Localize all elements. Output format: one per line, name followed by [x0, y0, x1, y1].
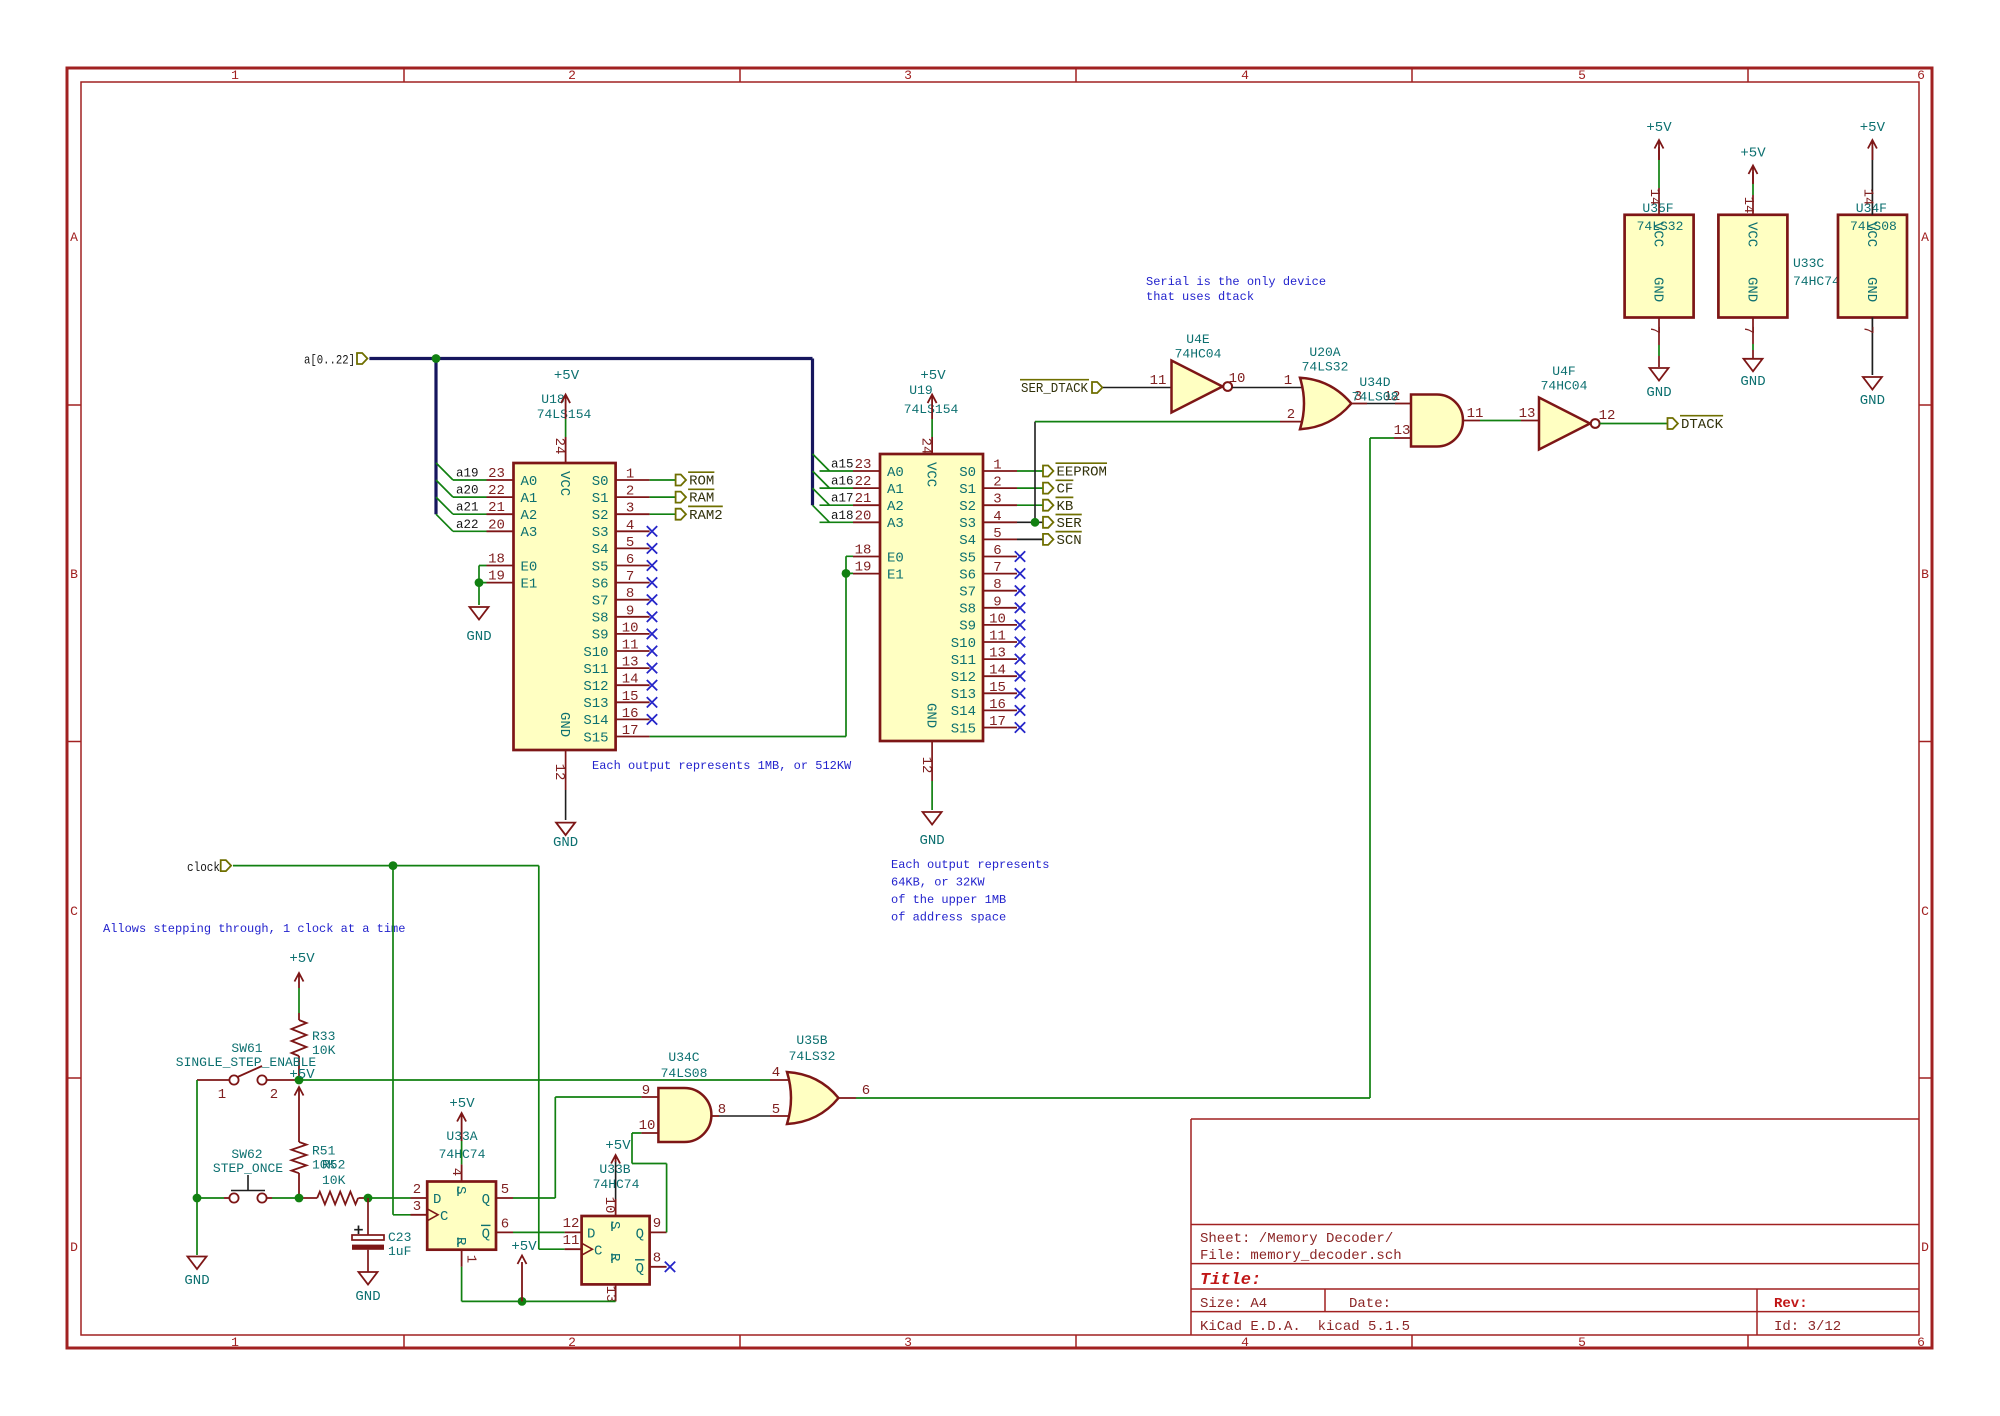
svg-text:R: R — [606, 1253, 622, 1262]
svg-text:a[0..22]: a[0..22] — [304, 354, 355, 368]
svg-text:S5: S5 — [959, 550, 976, 566]
svg-text:2: 2 — [568, 1335, 576, 1350]
wire U19 output to CF — [1017, 487, 1043, 489]
svg-text:RAM: RAM — [689, 491, 714, 507]
svg-text:SCN: SCN — [1057, 533, 1082, 549]
svg-text:3: 3 — [626, 501, 634, 517]
wire U33B Q to U34C input 10 — [632, 1133, 667, 1232]
svg-text:+5V: +5V — [920, 368, 946, 384]
svg-text:15: 15 — [622, 689, 639, 705]
hierarchical label RAM — [676, 489, 715, 506]
svg-text:SER_DTACK: SER_DTACK — [1021, 381, 1089, 397]
switch SW62 STEP_ONCE — [197, 1147, 299, 1203]
svg-text:clock: clock — [187, 861, 220, 875]
svg-text:D: D — [70, 1240, 78, 1255]
svg-text:ROM: ROM — [689, 474, 714, 490]
svg-text:8: 8 — [718, 1102, 726, 1118]
svg-text:1uF: 1uF — [388, 1244, 411, 1259]
svg-text:8: 8 — [653, 1251, 661, 1267]
svg-text:A2: A2 — [521, 508, 538, 524]
svg-text:2: 2 — [413, 1182, 421, 1198]
svg-text:20: 20 — [855, 508, 872, 524]
svg-text:S1: S1 — [959, 482, 976, 498]
svg-text:5: 5 — [1578, 68, 1586, 83]
svg-text:GND: GND — [184, 1273, 209, 1289]
svg-text:SW61: SW61 — [231, 1041, 262, 1056]
ground GND at C23 — [355, 1272, 380, 1305]
svg-text:KB: KB — [1057, 499, 1074, 515]
svg-text:6: 6 — [501, 1217, 509, 1233]
wire U18 S1 to RAM — [650, 496, 676, 498]
svg-text:8: 8 — [993, 577, 1001, 593]
wire U34D output 11 to U4F input 13 — [1463, 406, 1539, 422]
svg-text:74HC04: 74HC04 — [1541, 379, 1588, 394]
svg-text:24: 24 — [918, 438, 934, 455]
svg-text:14: 14 — [1646, 189, 1662, 206]
svg-text:DTACK: DTACK — [1681, 417, 1724, 433]
svg-text:74LS08: 74LS08 — [1352, 390, 1399, 405]
svg-text:13: 13 — [602, 1286, 618, 1303]
hierarchical label EEPROM — [1043, 463, 1107, 480]
svg-text:C: C — [1921, 904, 1929, 919]
svg-text:S12: S12 — [951, 670, 976, 686]
svg-text:74HC04: 74HC04 — [1175, 347, 1222, 362]
svg-text:5: 5 — [1578, 1335, 1586, 1350]
wire SER net to U20A input 2 with junction — [1031, 422, 1302, 527]
svg-text:S14: S14 — [583, 713, 608, 729]
svg-text:11: 11 — [1467, 406, 1484, 422]
svg-text:RAM2: RAM2 — [689, 508, 723, 524]
svg-text:+5V: +5V — [511, 1239, 537, 1255]
svg-text:11: 11 — [989, 629, 1006, 645]
svg-text:B: B — [70, 567, 78, 582]
power +5V at reset line — [511, 1239, 537, 1301]
wire U19 output to KB — [1017, 504, 1043, 506]
svg-text:U35B: U35B — [796, 1033, 827, 1048]
svg-text:13: 13 — [622, 655, 639, 671]
wire U18 S2 to RAM2 — [650, 513, 676, 515]
svg-text:S: S — [606, 1221, 622, 1229]
svg-text:6: 6 — [1917, 1335, 1925, 1350]
note serial dtack — [1146, 275, 1326, 304]
note each output 64KB — [891, 858, 1049, 925]
svg-text:74HC74: 74HC74 — [1793, 274, 1840, 289]
svg-text:11: 11 — [1150, 373, 1167, 389]
svg-text:1: 1 — [218, 1087, 226, 1103]
svg-text:STEP_ONCE: STEP_ONCE — [213, 1161, 283, 1176]
svg-text:Q: Q — [636, 1226, 644, 1242]
svg-text:10: 10 — [622, 620, 639, 636]
svg-text:Sheet: /Memory Decoder/: Sheet: /Memory Decoder/ — [1200, 1231, 1393, 1247]
svg-text:10: 10 — [601, 1197, 617, 1214]
svg-text:Date:: Date: — [1349, 1296, 1391, 1312]
svg-text:Each output represents 1MB, or: Each output represents 1MB, or 512KW — [592, 759, 852, 773]
svg-text:GND: GND — [1650, 277, 1666, 302]
svg-text:18: 18 — [855, 543, 872, 559]
bus a[0..22] — [369, 359, 812, 515]
svg-text:Q: Q — [482, 1192, 490, 1208]
svg-text:VCC: VCC — [1650, 222, 1666, 247]
svg-text:A0: A0 — [521, 474, 538, 490]
wire U18 S0 to ROM — [650, 479, 676, 481]
no-connect marks U19 S5-S15 — [1015, 551, 1025, 732]
IC U19 74LS154 decoder — [820, 383, 1018, 773]
power +5V at U35F pin 14 — [1646, 120, 1672, 160]
svg-text:2: 2 — [568, 68, 576, 83]
svg-text:CF: CF — [1057, 482, 1074, 498]
svg-text:GND: GND — [919, 833, 944, 849]
svg-text:a19: a19 — [456, 467, 479, 481]
svg-text:2: 2 — [1287, 407, 1295, 423]
svg-text:Serial is the only device: Serial is the only device — [1146, 275, 1326, 289]
svg-text:23: 23 — [488, 466, 505, 482]
svg-text:S1: S1 — [592, 491, 609, 507]
svg-text:GND: GND — [355, 1289, 380, 1305]
svg-text:1: 1 — [993, 458, 1001, 474]
svg-text:S4: S4 — [592, 542, 609, 558]
no-connect marks U18 S3-S14 — [647, 526, 657, 725]
power +5V at U33A pin 4 — [449, 1096, 475, 1164]
svg-text:1: 1 — [1284, 373, 1292, 389]
flip-flop U33B 74HC74 — [563, 1162, 667, 1302]
wire U4E output to U20A input 1 — [1232, 373, 1302, 389]
svg-text:VCC: VCC — [556, 471, 572, 496]
svg-text:C: C — [70, 904, 78, 919]
wire U18 S15 to U19 enables — [650, 556, 853, 736]
svg-text:+5V: +5V — [1740, 146, 1766, 162]
svg-text:S6: S6 — [592, 576, 609, 592]
svg-text:S9: S9 — [592, 628, 609, 644]
junction R51/SW62 — [295, 1194, 304, 1203]
svg-text:U4F: U4F — [1552, 364, 1575, 379]
svg-text:D: D — [1921, 1240, 1929, 1255]
svg-text:S0: S0 — [592, 474, 609, 490]
svg-text:GND: GND — [1863, 277, 1879, 302]
svg-text:2: 2 — [993, 475, 1001, 491]
svg-text:A1: A1 — [521, 491, 538, 507]
hierarchical label RAM2 — [676, 506, 723, 523]
svg-text:74LS32: 74LS32 — [1302, 360, 1349, 375]
svg-text:C23: C23 — [388, 1230, 411, 1245]
svg-text:4: 4 — [1241, 1335, 1249, 1350]
svg-text:a15: a15 — [831, 458, 854, 472]
svg-text:S0: S0 — [959, 465, 976, 481]
svg-text:a17: a17 — [831, 492, 854, 506]
svg-text:A: A — [70, 230, 78, 245]
and-gate U34D 74LS08 — [1352, 375, 1463, 447]
svg-text:S7: S7 — [592, 594, 609, 610]
svg-text:E0: E0 — [521, 559, 538, 575]
svg-text:KiCad E.D.A. kicad 5.1.5: KiCad E.D.A. kicad 5.1.5 — [1200, 1319, 1410, 1335]
svg-text:of the upper 1MB: of the upper 1MB — [891, 893, 1006, 907]
svg-text:Q: Q — [482, 1226, 490, 1242]
svg-text:S3: S3 — [959, 516, 976, 532]
capacitor C23 1uF — [352, 1198, 411, 1272]
switch SW61 SINGLE_STEP_ENABLE — [176, 1041, 317, 1103]
power +5V at SW61/R51 node — [289, 1067, 315, 1096]
power GND at U34F pin 7 — [1860, 377, 1885, 409]
flip-flop U33A 74HC74 — [411, 1129, 514, 1267]
wire U33A R to U33B R reset line — [462, 1267, 616, 1306]
svg-text:24: 24 — [551, 438, 567, 455]
svg-text:20: 20 — [488, 517, 505, 533]
svg-text:4: 4 — [626, 518, 634, 534]
svg-text:10: 10 — [989, 611, 1006, 627]
junction SW61 output — [295, 1076, 304, 1085]
svg-text:23: 23 — [855, 457, 872, 473]
IC U18 74LS154 decoder — [453, 392, 650, 780]
svg-text:S11: S11 — [951, 653, 976, 669]
svg-text:1: 1 — [463, 1255, 479, 1263]
svg-text:5: 5 — [626, 535, 634, 551]
hierarchical label SCN — [1043, 532, 1082, 549]
svg-text:S11: S11 — [583, 662, 608, 678]
svg-text:GND: GND — [923, 703, 939, 728]
svg-text:3: 3 — [993, 492, 1001, 508]
power +5V at U19 pin 24 — [920, 368, 946, 454]
svg-text:10: 10 — [1229, 371, 1246, 387]
svg-text:R52: R52 — [322, 1158, 345, 1173]
IC U35F 74LS32 power unit — [1625, 147, 1694, 367]
svg-text:13: 13 — [989, 646, 1006, 662]
svg-text:A: A — [1921, 230, 1929, 245]
svg-text:+5V: +5V — [1860, 120, 1886, 136]
svg-text:a21: a21 — [456, 501, 479, 515]
svg-text:S10: S10 — [583, 645, 608, 661]
svg-text:A3: A3 — [521, 525, 538, 541]
power +5V above R33 — [289, 951, 315, 988]
svg-text:Title:: Title: — [1200, 1271, 1261, 1290]
IC U33C 74HC74 power unit — [1718, 172, 1840, 358]
svg-text:a20: a20 — [456, 484, 479, 498]
svg-text:Q: Q — [636, 1261, 644, 1277]
wire U4F output to DTACK — [1600, 423, 1668, 425]
svg-text:17: 17 — [622, 723, 639, 739]
svg-text:22: 22 — [855, 474, 872, 490]
svg-text:9: 9 — [642, 1083, 650, 1099]
svg-text:14: 14 — [1740, 197, 1756, 214]
svg-text:7: 7 — [1859, 326, 1875, 334]
wire U19 output to SER — [1017, 521, 1043, 523]
svg-text:File: memory_decoder.sch: File: memory_decoder.sch — [1200, 1248, 1402, 1264]
svg-text:a16: a16 — [831, 475, 854, 489]
hierarchical label SER_DTACK — [1020, 380, 1102, 397]
power +5V at U33C pin 14 — [1740, 146, 1766, 185]
svg-text:A2: A2 — [887, 499, 904, 515]
svg-text:GND: GND — [1860, 393, 1885, 409]
svg-text:U19: U19 — [909, 383, 932, 398]
power GND at U35F pin 7 — [1646, 368, 1671, 401]
svg-text:10K: 10K — [322, 1173, 346, 1188]
svg-text:3: 3 — [413, 1199, 421, 1215]
svg-text:E1: E1 — [887, 567, 904, 583]
svg-text:1: 1 — [231, 68, 239, 83]
svg-text:74LS08: 74LS08 — [661, 1066, 708, 1081]
svg-text:VCC: VCC — [1863, 222, 1879, 247]
svg-text:4: 4 — [1241, 68, 1249, 83]
wire U35B output 6 to U34D input 13 — [839, 438, 1412, 1099]
svg-text:+5V: +5V — [449, 1096, 475, 1112]
svg-text:8: 8 — [626, 586, 634, 602]
svg-text:4: 4 — [993, 509, 1001, 525]
IC U34F 74LS08 power unit — [1838, 147, 1907, 375]
svg-text:S2: S2 — [592, 508, 609, 524]
svg-text:21: 21 — [488, 500, 505, 516]
or-gate U20A 74LS32 — [1287, 345, 1352, 429]
note each output 1MB — [592, 759, 852, 773]
or-gate U35B 74LS32 — [772, 1033, 839, 1124]
svg-text:6: 6 — [993, 543, 1001, 559]
svg-text:4: 4 — [772, 1065, 780, 1081]
svg-text:GND: GND — [1646, 385, 1671, 401]
hierarchical label DTACK — [1668, 416, 1724, 433]
title block — [1191, 1119, 1919, 1335]
svg-text:5: 5 — [993, 526, 1001, 542]
svg-text:Size: A4: Size: A4 — [1200, 1296, 1267, 1312]
wire R52 to C23 and U33A D — [364, 1194, 411, 1203]
svg-text:6: 6 — [1917, 68, 1925, 83]
svg-text:GND: GND — [466, 629, 491, 645]
svg-text:of address space: of address space — [891, 911, 1006, 925]
svg-text:9: 9 — [993, 594, 1001, 610]
svg-text:S13: S13 — [583, 696, 608, 712]
ground GND at switches — [184, 1257, 209, 1290]
svg-text:16: 16 — [622, 706, 639, 722]
svg-text:9: 9 — [626, 603, 634, 619]
junction bus branch — [432, 354, 441, 363]
svg-text:11: 11 — [563, 1233, 580, 1249]
svg-text:Rev:: Rev: — [1774, 1296, 1808, 1312]
svg-text:+5V: +5V — [554, 368, 580, 384]
wire clock net — [233, 861, 565, 1249]
svg-text:22: 22 — [488, 483, 505, 499]
svg-text:3: 3 — [904, 1335, 912, 1350]
and-gate U34C 74LS08 — [639, 1050, 712, 1142]
svg-text:74LS154: 74LS154 — [537, 407, 592, 422]
svg-text:7: 7 — [1740, 326, 1756, 334]
svg-text:S3: S3 — [592, 525, 609, 541]
svg-text:Each output represents: Each output represents — [891, 858, 1049, 872]
resistor R51 10K — [292, 1087, 336, 1198]
hierarchical label clock — [187, 860, 231, 875]
svg-text:GND: GND — [1744, 277, 1760, 302]
svg-text:14: 14 — [1859, 189, 1875, 206]
svg-text:12: 12 — [563, 1216, 580, 1232]
svg-text:U34C: U34C — [668, 1050, 699, 1065]
svg-text:1: 1 — [231, 1335, 239, 1350]
svg-text:13: 13 — [1394, 423, 1411, 439]
power GND at U33C pin 7 — [1740, 359, 1765, 390]
svg-text:S8: S8 — [959, 602, 976, 618]
svg-text:19: 19 — [855, 560, 872, 576]
inverter U4F 74HC04 — [1539, 364, 1615, 450]
svg-text:A0: A0 — [887, 465, 904, 481]
svg-text:R51: R51 — [312, 1144, 336, 1159]
svg-text:S4: S4 — [959, 533, 976, 549]
svg-text:16: 16 — [989, 697, 1006, 713]
svg-text:74LS32: 74LS32 — [789, 1049, 836, 1064]
svg-text:9: 9 — [653, 1216, 661, 1232]
wire SW61 to U35B input 4 — [299, 1079, 793, 1081]
power GND at U18 pin 12 — [553, 750, 578, 851]
svg-text:R: R — [452, 1237, 468, 1246]
svg-text:U4E: U4E — [1186, 332, 1210, 347]
svg-text:A3: A3 — [887, 516, 904, 532]
svg-text:D: D — [433, 1192, 441, 1208]
svg-text:6: 6 — [862, 1083, 870, 1099]
svg-text:7: 7 — [1646, 326, 1662, 334]
svg-text:17: 17 — [989, 714, 1006, 730]
svg-text:D: D — [587, 1226, 595, 1242]
svg-text:7: 7 — [993, 560, 1001, 576]
note allows stepping — [103, 922, 405, 936]
hierarchical label SER — [1043, 515, 1082, 532]
svg-text:C: C — [594, 1244, 602, 1260]
svg-text:S15: S15 — [583, 730, 608, 746]
svg-text:18: 18 — [488, 552, 505, 568]
svg-text:GND: GND — [556, 712, 572, 737]
svg-text:U34D: U34D — [1359, 375, 1390, 390]
svg-text:R33: R33 — [312, 1029, 335, 1044]
power GND at U19 pin 12 — [919, 741, 944, 849]
svg-text:that uses dtack: that uses dtack — [1146, 290, 1254, 304]
svg-text:VCC: VCC — [923, 462, 939, 487]
svg-text:C: C — [440, 1209, 448, 1225]
svg-text:64KB, or 32KW: 64KB, or 32KW — [891, 876, 985, 890]
svg-text:Id: 3/12: Id: 3/12 — [1774, 1319, 1841, 1335]
svg-text:E0: E0 — [887, 550, 904, 566]
svg-text:S12: S12 — [583, 679, 608, 695]
svg-text:EEPROM: EEPROM — [1057, 465, 1107, 481]
svg-text:74LS154: 74LS154 — [904, 402, 959, 417]
hierarchical label KB — [1043, 497, 1073, 514]
wire U19 output to EEPROM — [1017, 470, 1043, 472]
svg-text:S10: S10 — [951, 636, 976, 652]
svg-text:3: 3 — [904, 68, 912, 83]
resistor R33 10K — [292, 988, 336, 1080]
svg-text:5: 5 — [501, 1182, 509, 1198]
bus entries to U19 — [813, 454, 830, 522]
svg-text:1: 1 — [626, 467, 634, 483]
svg-text:S8: S8 — [592, 611, 609, 627]
svg-text:S7: S7 — [959, 585, 976, 601]
svg-text:13: 13 — [1519, 406, 1536, 422]
resistor R52 10K horizontal — [299, 1158, 368, 1205]
svg-text:14: 14 — [989, 663, 1006, 679]
power +5V at U18 pin 24 — [554, 368, 580, 463]
hierarchical label a[0..22] — [304, 353, 367, 368]
svg-text:19: 19 — [488, 569, 505, 585]
svg-text:SW62: SW62 — [231, 1147, 262, 1162]
bus entries to U18 — [436, 463, 453, 531]
svg-text:U33C: U33C — [1793, 256, 1824, 271]
wire U18 E0/E1 enable to ground — [475, 566, 487, 606]
svg-text:21: 21 — [855, 491, 872, 507]
wire U19 output to SCN — [1017, 538, 1043, 540]
svg-text:SER: SER — [1057, 516, 1083, 532]
svg-text:S9: S9 — [959, 619, 976, 635]
svg-text:10: 10 — [639, 1118, 656, 1134]
svg-text:7: 7 — [626, 569, 634, 585]
svg-text:A1: A1 — [887, 482, 904, 498]
svg-text:6: 6 — [626, 552, 634, 568]
no-connect at U33B pin 8 — [665, 1262, 675, 1272]
power +5V at U34F pin 14 — [1860, 120, 1886, 160]
svg-text:Allows stepping through, 1 clo: Allows stepping through, 1 clock at a ti… — [103, 922, 405, 936]
svg-text:S13: S13 — [951, 687, 976, 703]
svg-text:S15: S15 — [951, 721, 976, 737]
svg-text:2: 2 — [270, 1087, 278, 1103]
